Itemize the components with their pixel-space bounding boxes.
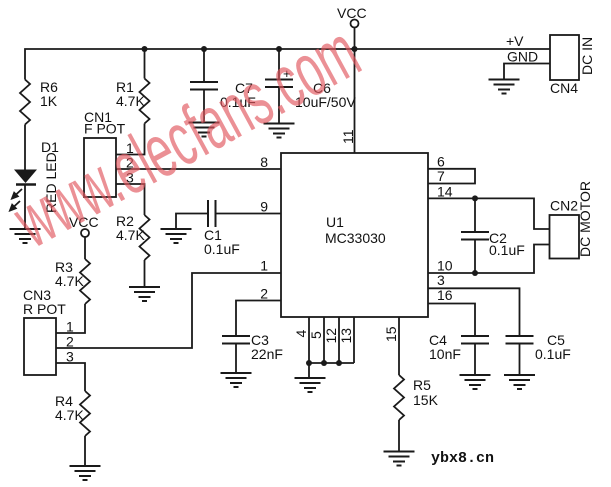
svg-text:15K: 15K xyxy=(413,392,439,408)
svg-text:2: 2 xyxy=(260,286,268,302)
svg-text:1: 1 xyxy=(260,258,268,274)
svg-text:+V: +V xyxy=(506,33,524,49)
svg-text:MC33030: MC33030 xyxy=(325,230,386,246)
svg-text:R5: R5 xyxy=(413,377,431,393)
svg-text:11: 11 xyxy=(340,129,356,144)
svg-text:0.1uF: 0.1uF xyxy=(489,242,525,258)
svg-text:10nF: 10nF xyxy=(429,346,461,362)
svg-text:5: 5 xyxy=(308,331,324,339)
svg-text:22nF: 22nF xyxy=(251,346,283,362)
svg-text:0.1uF: 0.1uF xyxy=(204,241,240,257)
svg-text:16: 16 xyxy=(437,287,453,303)
svg-text:CN2: CN2 xyxy=(550,198,578,214)
svg-text:DC MOTOR: DC MOTOR xyxy=(577,181,593,257)
svg-text:4: 4 xyxy=(293,330,309,338)
svg-text:4.7K: 4.7K xyxy=(116,227,145,243)
svg-text:GND: GND xyxy=(507,49,538,65)
svg-text:9: 9 xyxy=(260,199,268,215)
svg-text:1K: 1K xyxy=(40,93,58,109)
svg-text:13: 13 xyxy=(338,328,354,344)
svg-text:2: 2 xyxy=(66,334,74,350)
svg-text:14: 14 xyxy=(437,184,453,200)
svg-text:4.7K: 4.7K xyxy=(116,93,145,109)
svg-text:0.1uF: 0.1uF xyxy=(535,346,571,362)
svg-text:12: 12 xyxy=(323,328,339,344)
svg-text:CN4: CN4 xyxy=(550,80,578,96)
svg-text:4.7K: 4.7K xyxy=(55,273,84,289)
svg-text:1: 1 xyxy=(66,319,74,335)
svg-text:ybx8.cn: ybx8.cn xyxy=(431,450,494,467)
svg-text:8: 8 xyxy=(260,154,268,170)
svg-text:4.7K: 4.7K xyxy=(55,407,84,423)
svg-text:3: 3 xyxy=(66,349,74,365)
svg-text:www.elecfans.com: www.elecfans.com xyxy=(0,9,373,264)
svg-text:7: 7 xyxy=(437,168,445,184)
svg-text:VCC: VCC xyxy=(337,5,367,21)
svg-text:U1: U1 xyxy=(326,214,344,230)
svg-text:R POT: R POT xyxy=(23,301,66,317)
svg-text:DC IN: DC IN xyxy=(579,37,595,75)
svg-text:15: 15 xyxy=(383,326,399,342)
svg-text:3: 3 xyxy=(437,272,445,288)
